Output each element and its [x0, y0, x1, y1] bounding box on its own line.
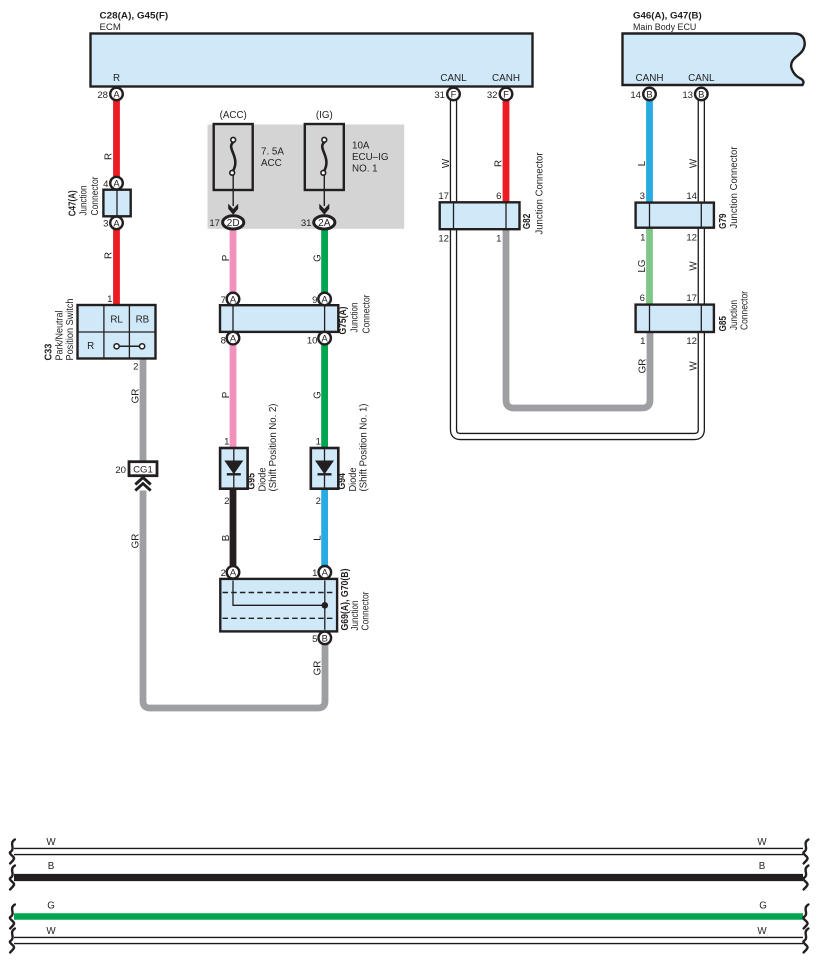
svg-text:8: 8 — [221, 336, 226, 347]
svg-text:A: A — [230, 293, 237, 304]
svg-text:13: 13 — [682, 90, 693, 101]
svg-text:5: 5 — [312, 634, 317, 645]
svg-text:P: P — [221, 254, 232, 261]
svg-text:G95: G95 — [246, 473, 257, 490]
svg-text:17: 17 — [438, 191, 449, 202]
svg-text:Connector: Connector — [90, 176, 101, 216]
svg-text:1: 1 — [496, 234, 501, 245]
svg-text:L: L — [637, 160, 648, 166]
svg-text:Connector: Connector — [360, 591, 371, 631]
svg-text:G82: G82 — [522, 213, 533, 229]
svg-text:6: 6 — [496, 191, 501, 202]
svg-text:1: 1 — [107, 294, 112, 305]
svg-text:P: P — [221, 391, 232, 398]
svg-text:G: G — [313, 254, 324, 262]
svg-text:9: 9 — [312, 295, 317, 306]
svg-text:C33: C33 — [44, 343, 55, 360]
svg-text:B: B — [221, 534, 232, 541]
svg-text:1: 1 — [316, 437, 321, 448]
svg-text:6: 6 — [640, 293, 645, 304]
svg-text:G75(A): G75(A) — [338, 307, 349, 335]
svg-text:B: B — [759, 861, 766, 872]
svg-text:A: A — [230, 333, 237, 344]
svg-text:12: 12 — [686, 336, 697, 347]
svg-text:R: R — [113, 73, 120, 84]
svg-text:Junction: Junction — [729, 300, 740, 330]
svg-text:G: G — [759, 901, 767, 912]
svg-text:GR: GR — [637, 359, 648, 374]
svg-text:C47(A): C47(A) — [68, 190, 79, 216]
svg-text:Diode: Diode — [257, 467, 268, 492]
svg-text:RB: RB — [136, 315, 150, 326]
svg-text:W: W — [689, 361, 700, 371]
svg-text:Park/Neutral: Park/Neutral — [54, 311, 65, 361]
svg-text:F: F — [451, 88, 457, 99]
svg-text:GR: GR — [131, 534, 142, 549]
svg-text:Connector: Connector — [361, 294, 372, 334]
svg-text:CANL: CANL — [440, 73, 467, 84]
svg-text:G: G — [47, 901, 55, 912]
svg-text:32: 32 — [487, 90, 498, 101]
svg-text:31: 31 — [434, 90, 445, 101]
svg-text:ACC: ACC — [261, 158, 282, 169]
svg-text:W: W — [689, 261, 700, 271]
svg-text:7: 7 — [221, 295, 226, 306]
svg-text:2D: 2D — [227, 218, 240, 229]
svg-text:A: A — [113, 217, 120, 228]
svg-text:A: A — [230, 567, 237, 578]
svg-text:G46(A), G47(B): G46(A), G47(B) — [633, 11, 702, 22]
svg-text:Junction: Junction — [349, 303, 360, 333]
svg-text:1: 1 — [224, 437, 229, 448]
svg-text:L: L — [313, 535, 324, 541]
svg-text:12: 12 — [438, 234, 449, 245]
svg-text:Junction: Junction — [79, 186, 90, 216]
svg-text:G94: G94 — [337, 473, 348, 490]
svg-text:CANL: CANL — [688, 73, 715, 84]
svg-text:A: A — [322, 567, 329, 578]
svg-text:B: B — [322, 632, 328, 643]
svg-text:C28(A), G45(F): C28(A), G45(F) — [100, 11, 169, 22]
svg-text:ECU–IG: ECU–IG — [352, 152, 388, 163]
svg-text:R: R — [493, 160, 504, 167]
svg-text:1: 1 — [312, 568, 317, 579]
svg-text:W: W — [757, 926, 767, 937]
svg-text:B: B — [48, 861, 55, 872]
svg-text:A: A — [321, 293, 328, 304]
svg-text:ECM: ECM — [100, 22, 121, 33]
svg-text:17: 17 — [686, 293, 697, 304]
svg-text:F: F — [503, 88, 509, 99]
svg-text:GR: GR — [131, 389, 142, 404]
svg-text:W: W — [441, 158, 452, 168]
svg-text:2: 2 — [316, 496, 321, 507]
svg-text:2: 2 — [224, 496, 229, 507]
svg-text:10: 10 — [307, 336, 318, 347]
svg-text:(IG): (IG) — [316, 110, 333, 121]
svg-text:4: 4 — [103, 179, 109, 190]
svg-text:W: W — [46, 926, 56, 937]
svg-text:31: 31 — [301, 218, 312, 229]
svg-text:28: 28 — [97, 90, 108, 101]
svg-text:12: 12 — [686, 233, 697, 244]
svg-text:LG: LG — [637, 259, 648, 272]
svg-text:R: R — [104, 153, 115, 160]
svg-text:R: R — [87, 341, 94, 352]
svg-text:Diode: Diode — [348, 467, 359, 492]
svg-text:17: 17 — [209, 218, 220, 229]
svg-text:GR: GR — [313, 661, 324, 676]
svg-text:(Shift Position No. 1): (Shift Position No. 1) — [359, 404, 370, 492]
svg-text:2: 2 — [133, 362, 138, 373]
svg-text:G79: G79 — [718, 213, 729, 229]
svg-text:CG1: CG1 — [133, 465, 153, 476]
svg-text:Main Body ECU: Main Body ECU — [633, 22, 696, 33]
svg-text:G85: G85 — [718, 316, 729, 332]
svg-text:7. 5A: 7. 5A — [261, 147, 284, 158]
svg-text:3: 3 — [640, 191, 645, 202]
svg-text:CANH: CANH — [492, 73, 520, 84]
svg-text:20: 20 — [115, 465, 126, 476]
svg-text:14: 14 — [630, 90, 641, 101]
svg-text:B: B — [698, 88, 704, 99]
svg-text:CANH: CANH — [636, 73, 664, 84]
svg-text:Junction: Junction — [350, 601, 361, 631]
svg-text:3: 3 — [103, 219, 108, 230]
svg-text:R: R — [104, 252, 115, 259]
svg-text:10A: 10A — [352, 141, 370, 152]
svg-text:(Shift Position No. 2): (Shift Position No. 2) — [268, 404, 279, 492]
svg-text:Junction Connector: Junction Connector — [534, 152, 545, 235]
svg-text:Junction Connector: Junction Connector — [729, 146, 740, 229]
svg-text:B: B — [646, 88, 652, 99]
svg-text:W: W — [46, 837, 56, 848]
svg-text:NO. 1: NO. 1 — [352, 164, 378, 175]
svg-text:14: 14 — [686, 191, 697, 202]
svg-text:W: W — [757, 837, 767, 848]
svg-text:1: 1 — [640, 336, 645, 347]
svg-text:RL: RL — [110, 315, 123, 326]
svg-text:(ACC): (ACC) — [220, 110, 247, 121]
svg-text:2A: 2A — [318, 218, 331, 229]
svg-text:W: W — [689, 158, 700, 168]
svg-text:A: A — [113, 178, 120, 189]
svg-text:1: 1 — [640, 233, 645, 244]
svg-text:A: A — [113, 88, 120, 99]
svg-text:G: G — [313, 391, 324, 399]
svg-text:Position Switch: Position Switch — [65, 299, 76, 361]
svg-text:Connector: Connector — [739, 290, 750, 330]
svg-text:A: A — [321, 333, 328, 344]
svg-text:2: 2 — [221, 568, 226, 579]
